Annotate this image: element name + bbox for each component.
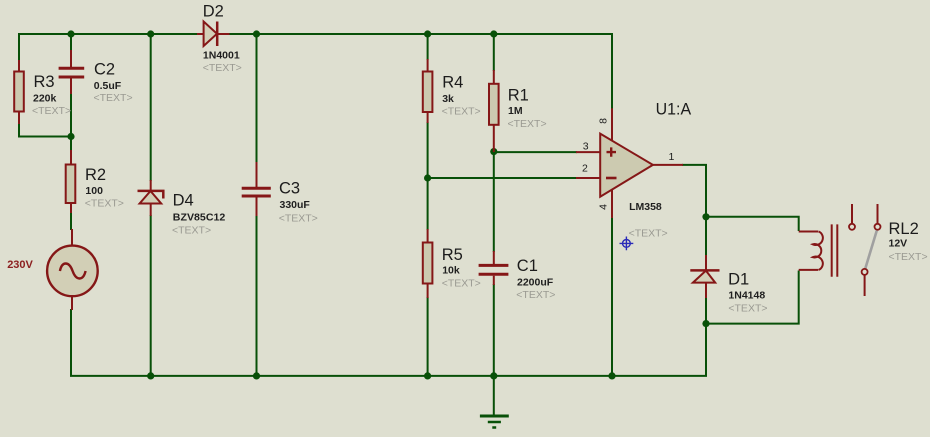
node top rail C3 bbox=[253, 30, 260, 37]
wire C2 bottom to junction bbox=[70, 93, 72, 137]
wire C1 bottom to rail bbox=[493, 284, 495, 376]
wire D1 node to relay coil top bbox=[706, 217, 799, 231]
op-amp pin 8 stub bbox=[611, 108, 613, 140]
op-amp pin 4 stub bbox=[611, 190, 613, 218]
svg-text:<TEXT>: <TEXT> bbox=[508, 118, 547, 130]
node top rail R1 bbox=[490, 30, 497, 37]
ground bbox=[480, 376, 509, 428]
relay core bars bbox=[832, 224, 838, 276]
wire op-amp pin2 net bbox=[428, 177, 577, 179]
node top rail R4 bbox=[424, 30, 431, 37]
relay RL2 coil bbox=[799, 224, 838, 276]
wire relay coil bottom return bbox=[706, 271, 799, 324]
wire R5 bottom to rail bbox=[427, 297, 429, 376]
node bottom rail C3 bbox=[253, 372, 260, 379]
svg-text:<TEXT>: <TEXT> bbox=[442, 105, 481, 117]
resistor R4 bbox=[423, 59, 481, 123]
node pin2 divider bbox=[424, 174, 431, 181]
node pin3 R1 C1 bbox=[490, 148, 497, 155]
svg-text:2200uF: 2200uF bbox=[517, 277, 554, 289]
svg-text:10k: 10k bbox=[442, 265, 460, 277]
wire op-amp pin3 net bbox=[494, 151, 577, 153]
node bottom rail GND bbox=[490, 372, 497, 379]
op-amp U1:A LM358 bbox=[576, 101, 691, 251]
op-amp pin 2 stub bbox=[576, 177, 600, 179]
resistor R3 bbox=[14, 60, 71, 124]
svg-text:12V: 12V bbox=[889, 237, 908, 249]
op-amp minus sign bbox=[606, 177, 617, 180]
wire R1 bottom node to C1 bbox=[493, 152, 495, 252]
node D1 top bbox=[702, 213, 709, 220]
op-amp plus sign bbox=[607, 147, 617, 156]
wire D1 column bbox=[705, 217, 707, 257]
wire D4 column bottom bbox=[150, 215, 152, 376]
svg-text:D2: D2 bbox=[203, 2, 224, 20]
wire D1 bottom to rail bbox=[705, 298, 707, 376]
svg-text:R3: R3 bbox=[34, 73, 55, 91]
svg-text:C2: C2 bbox=[94, 60, 115, 78]
svg-text:2: 2 bbox=[582, 163, 588, 175]
wire C3 column top bbox=[256, 34, 258, 163]
node bottom rail D4 bbox=[147, 372, 154, 379]
wire bottom rail bbox=[70, 375, 707, 377]
wire R2 to source bbox=[70, 212, 72, 230]
svg-text:U1:A: U1:A bbox=[656, 101, 692, 119]
wire op-amp pin4 to rail bbox=[611, 218, 613, 376]
svg-text:RL2: RL2 bbox=[889, 220, 919, 238]
diode D1 bbox=[690, 255, 767, 315]
svg-text:<TEXT>: <TEXT> bbox=[728, 303, 767, 315]
svg-text:R1: R1 bbox=[508, 86, 529, 104]
svg-text:<TEXT>: <TEXT> bbox=[172, 224, 211, 236]
wire C2 top bbox=[70, 34, 72, 51]
svg-text:3: 3 bbox=[583, 140, 589, 152]
resistor R5 bbox=[423, 229, 481, 298]
svg-text:1M: 1M bbox=[508, 105, 523, 117]
origin marker bbox=[620, 237, 634, 251]
AC source V1 230V bbox=[7, 229, 98, 310]
wire D4 column top bbox=[150, 34, 152, 181]
svg-text:100: 100 bbox=[85, 185, 103, 197]
wire R1 column top bbox=[493, 34, 495, 71]
svg-text:R5: R5 bbox=[442, 246, 463, 264]
wire junction to R2 bbox=[70, 137, 72, 152]
wire op-amp supply drop bbox=[611, 33, 613, 109]
svg-text:<TEXT>: <TEXT> bbox=[94, 92, 133, 104]
svg-text:0.5uF: 0.5uF bbox=[94, 80, 122, 92]
relay RL2 contacts bbox=[849, 204, 928, 296]
svg-text:4: 4 bbox=[598, 204, 610, 210]
wire op-amp output to D1 node bbox=[682, 165, 706, 217]
node R3 C2 junction bbox=[67, 133, 74, 140]
svg-text:1: 1 bbox=[669, 151, 675, 163]
svg-text:D1: D1 bbox=[728, 271, 749, 289]
svg-text:R2: R2 bbox=[85, 166, 106, 184]
svg-text:<TEXT>: <TEXT> bbox=[279, 212, 318, 224]
svg-text:3k: 3k bbox=[442, 93, 454, 105]
capacitor C1 bbox=[479, 251, 556, 301]
svg-text:C1: C1 bbox=[517, 257, 538, 275]
svg-text:<TEXT>: <TEXT> bbox=[442, 277, 481, 289]
wire R4 bottom to node bbox=[427, 122, 429, 230]
capacitor C3 bbox=[242, 162, 318, 224]
node top rail C2 bbox=[67, 30, 74, 37]
resistor R1 bbox=[489, 70, 547, 152]
svg-text:330uF: 330uF bbox=[280, 199, 311, 211]
svg-text:<TEXT>: <TEXT> bbox=[889, 251, 928, 263]
wire source bottom to rail bbox=[70, 309, 72, 375]
svg-text:<TEXT>: <TEXT> bbox=[32, 105, 71, 117]
svg-text:<TEXT>: <TEXT> bbox=[516, 289, 555, 301]
svg-text:1N4001: 1N4001 bbox=[203, 49, 240, 61]
svg-text:220k: 220k bbox=[33, 93, 57, 105]
diode D2 bbox=[197, 2, 242, 74]
svg-text:<TEXT>: <TEXT> bbox=[629, 228, 668, 240]
op-amp pin 1 stub bbox=[653, 164, 683, 166]
wire left column to R3 bbox=[18, 33, 20, 61]
svg-text:D4: D4 bbox=[173, 192, 194, 210]
relay blade bbox=[865, 231, 877, 269]
op-amp pin 3 stub bbox=[576, 151, 600, 153]
node bottom rail R5 bbox=[424, 372, 431, 379]
wire C3 column bottom bbox=[256, 215, 258, 376]
zener diode D4 bbox=[138, 180, 226, 236]
node top rail D4 bbox=[147, 30, 154, 37]
svg-text:1N4148: 1N4148 bbox=[728, 290, 765, 302]
svg-text:<TEXT>: <TEXT> bbox=[203, 62, 242, 74]
svg-text:C3: C3 bbox=[279, 179, 300, 197]
svg-text:R4: R4 bbox=[442, 74, 463, 92]
resistor R2 bbox=[66, 150, 124, 213]
node D1 bottom bbox=[702, 320, 709, 327]
svg-text:BZV85C12: BZV85C12 bbox=[173, 212, 226, 224]
node bottom rail op-amp bbox=[608, 372, 615, 379]
wire top rail right segment bbox=[229, 33, 612, 35]
svg-text:<TEXT>: <TEXT> bbox=[85, 197, 124, 209]
wire top rail left segment bbox=[18, 33, 197, 35]
svg-text:LM358: LM358 bbox=[629, 201, 662, 213]
wire R4 column top bbox=[427, 34, 429, 60]
wire R3 bottom to junction bbox=[19, 123, 71, 137]
capacitor C2 bbox=[59, 50, 133, 104]
svg-text:230V: 230V bbox=[7, 259, 33, 271]
svg-text:8: 8 bbox=[598, 118, 610, 124]
